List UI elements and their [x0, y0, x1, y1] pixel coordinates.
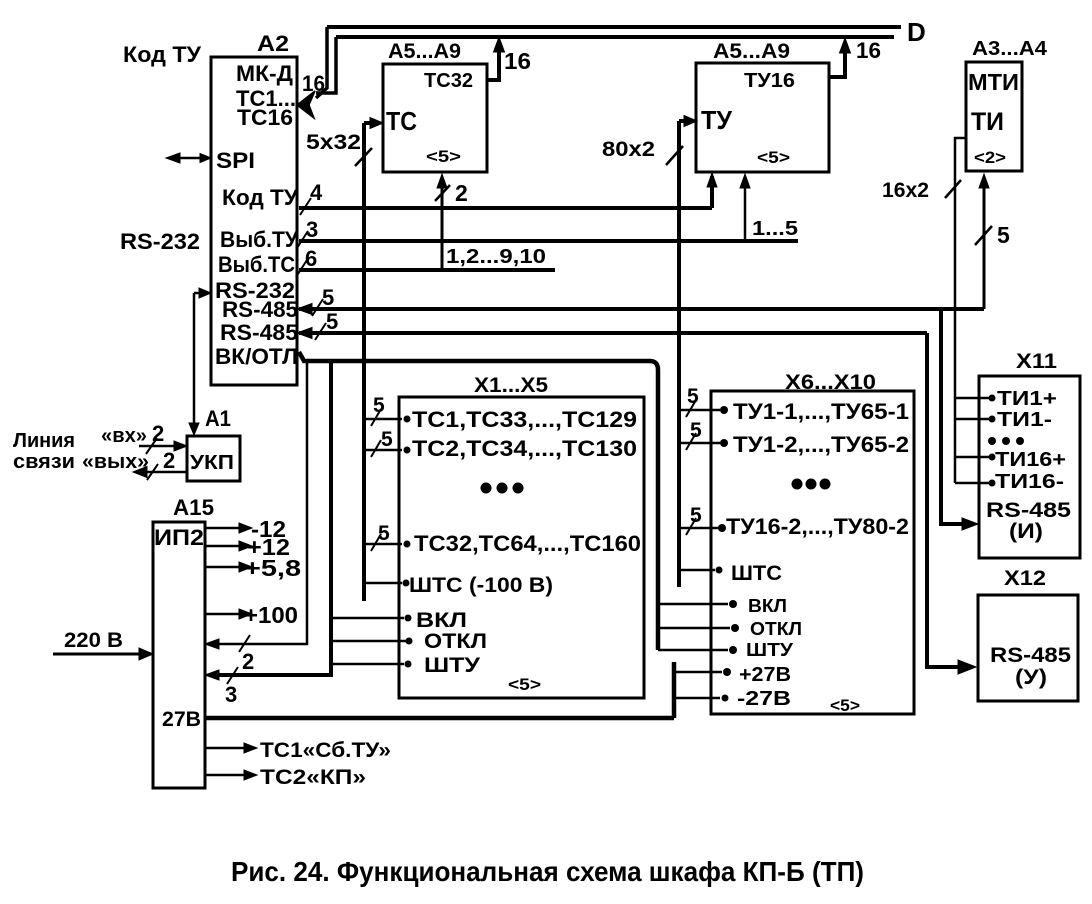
- node 1...5 label: [752, 218, 798, 240]
- wire RS-485 bus1 rise to MTI: [983, 178, 986, 309]
- svg-text:ОТКЛ: ОТКЛ: [750, 619, 802, 639]
- block TC32 A5..A9: [383, 64, 487, 172]
- svg-text:ТС2,ТС34,...,ТС130: ТС2,ТС34,...,ТС130: [412, 436, 637, 461]
- wire branch 1...5 up to TU16: [744, 178, 747, 241]
- wire D bus lower line: [336, 35, 894, 39]
- svg-text:+27В: +27В: [739, 664, 791, 686]
- node 1,2...9,10 label: [446, 246, 546, 268]
- node 80x2 label: [602, 138, 655, 161]
- wire Vyb.TC bus: [299, 268, 555, 272]
- node RS-232 left label: [120, 229, 200, 254]
- wire VK/OTL bus: [299, 352, 658, 650]
- op-amp block A2 MK-D: [211, 57, 297, 385]
- svg-text:<2>: <2>: [974, 148, 1006, 167]
- node label 5 MTI: [997, 222, 1010, 248]
- node 16 label at A2: [302, 71, 325, 96]
- node label 5 TU16-2: [690, 504, 702, 527]
- node slash on branch 2: [435, 185, 450, 201]
- svg-text:D: D: [907, 17, 926, 47]
- wire D bus drop outer: [316, 27, 327, 98]
- node A1 designator: [205, 406, 231, 431]
- svg-text:УКП: УКП: [190, 452, 234, 474]
- node slash on RS-485 bus1: [312, 299, 323, 316]
- svg-text:2: 2: [242, 649, 254, 674]
- node slash vh: [146, 438, 157, 454]
- wire TU1-2 branch: [679, 442, 720, 445]
- wire 220V input: [53, 653, 140, 656]
- wire 27V riser: [672, 662, 677, 718]
- wire SHTU row feed X1X5: [331, 663, 404, 666]
- node slash on line-3: [227, 667, 238, 684]
- node 5x32 label: [306, 131, 361, 154]
- node slash 5 TC2: [371, 440, 381, 457]
- wire branch 2 up to TC32: [441, 180, 444, 270]
- svg-text:ТС32,ТС64,...,ТС160: ТС32,ТС64,...,ТС160: [414, 531, 641, 556]
- svg-text:RS-485: RS-485: [220, 320, 298, 345]
- node ellipsis X1X5: [481, 483, 492, 494]
- node label 5: [322, 285, 334, 310]
- svg-text:МК-Д: МК-Д: [236, 61, 293, 86]
- svg-text:связи: связи: [13, 451, 75, 473]
- wire -27V branch: [674, 697, 720, 700]
- node 16 label TU16: [856, 38, 881, 63]
- block MTI A3..A4: [966, 62, 1022, 171]
- svg-text:5: 5: [373, 394, 385, 417]
- node A3...A4 label: [972, 38, 1048, 60]
- node ellipsis X6X10: [792, 479, 803, 490]
- wire TI1+ branch: [955, 397, 989, 400]
- node X11 label: [1016, 350, 1057, 373]
- node slash 5 TC1: [371, 409, 381, 426]
- node slash vyh: [147, 464, 158, 480]
- svg-text:МТИ: МТИ: [968, 69, 1019, 95]
- wire SHTS branch X6X10: [679, 569, 715, 572]
- wire TU16-2 branch: [679, 527, 720, 530]
- svg-text:RS-485: RS-485: [986, 499, 1071, 522]
- wire TI16- branch: [955, 482, 989, 485]
- node A5...A9 label right: [713, 40, 790, 63]
- wire +27V branch: [674, 671, 722, 674]
- svg-text:«вых»: «вых»: [82, 451, 149, 473]
- svg-text:ТС32: ТС32: [424, 70, 473, 92]
- svg-text:А15: А15: [173, 495, 214, 520]
- wire 27V bus: [205, 716, 674, 721]
- svg-text:Код ТУ: Код ТУ: [123, 42, 201, 67]
- node ellipsis X11: [988, 437, 996, 445]
- node label 5 TC32: [378, 522, 390, 545]
- node svyazi label: [13, 451, 75, 473]
- block UKP A1: [187, 436, 240, 481]
- wire TC2 KP output: [205, 774, 245, 777]
- wire TC1 branch: [364, 418, 402, 421]
- node label 3 IP2: [225, 682, 237, 707]
- wire Vyb.TU bus: [299, 239, 798, 243]
- wire RS-485 bus1 drop to X11: [941, 309, 963, 524]
- svg-text:+100: +100: [244, 602, 298, 628]
- svg-text:ТУ16-2,...,ТУ80-2: ТУ16-2,...,ТУ80-2: [726, 514, 909, 539]
- svg-text:Выб.ТУ: Выб.ТУ: [220, 227, 298, 252]
- wire 16 arrow TU16 to D bus: [829, 47, 845, 77]
- svg-text:(У): (У): [1015, 666, 1047, 689]
- svg-text:А5...А9: А5...А9: [388, 40, 461, 63]
- wire SHTU row feed X6X10: [658, 649, 728, 652]
- svg-text:5: 5: [378, 522, 390, 545]
- wire 80x2 vertical: [677, 121, 681, 587]
- svg-text:4: 4: [310, 180, 323, 205]
- node slash 4 on Kod TU: [300, 198, 311, 215]
- svg-text:5: 5: [690, 419, 702, 442]
- wire +5,8 output: [205, 566, 240, 569]
- svg-text:ТИ1-: ТИ1-: [997, 409, 1052, 431]
- wire OTKL row feed X6X10: [658, 627, 730, 630]
- svg-text:ТИ16-: ТИ16-: [995, 471, 1064, 493]
- svg-text:16х2: 16х2: [882, 179, 929, 202]
- svg-text:ТС1«Сб.ТУ»: ТС1«Сб.ТУ»: [260, 739, 391, 762]
- node pin dots X1X5: [404, 416, 411, 423]
- wire D bus upper line: [327, 25, 901, 29]
- wire +12 output: [205, 545, 240, 548]
- node vyh label: [82, 451, 149, 473]
- svg-text:ТС: ТС: [386, 106, 417, 136]
- wire 5x32 vertical: [362, 123, 366, 601]
- wire RS-485 bus 2: [299, 331, 927, 335]
- wire RS-232 elbow to UKP: [194, 293, 199, 428]
- node X12 label: [1004, 567, 1046, 590]
- svg-text:ВКЛ: ВКЛ: [416, 609, 467, 632]
- node figure caption: [231, 856, 864, 887]
- node A15 designator: [173, 495, 214, 520]
- node X6...X10 label: [785, 371, 876, 394]
- svg-text:80х2: 80х2: [602, 138, 655, 161]
- wire 16x2 from MTI to X11: [955, 138, 966, 483]
- svg-text:А2: А2: [257, 31, 289, 56]
- node label 5 TC2: [381, 428, 393, 451]
- svg-text:ТС2«КП»: ТС2«КП»: [260, 766, 366, 789]
- svg-text:1,2...9,10: 1,2...9,10: [446, 246, 546, 268]
- svg-text:Линия: Линия: [13, 430, 75, 452]
- node label 5 TC1: [373, 394, 385, 417]
- svg-text:6: 6: [305, 246, 317, 271]
- svg-text:2: 2: [455, 180, 468, 206]
- svg-text:«вх»: «вх»: [101, 425, 147, 447]
- svg-text:1...5: 1...5: [752, 218, 798, 240]
- svg-text:RS-485: RS-485: [990, 644, 1071, 667]
- svg-text:Х6...Х10: Х6...Х10: [785, 371, 876, 394]
- node A2 designator: [257, 31, 289, 56]
- wire TC1 SbTU output: [205, 747, 245, 750]
- svg-text:-27В: -27В: [737, 688, 791, 710]
- wire VKL row feed X1X5: [331, 617, 404, 620]
- svg-text:ОТКЛ: ОТКЛ: [424, 630, 487, 653]
- svg-text:А5...А9: А5...А9: [713, 40, 790, 63]
- node slash 5 TU1-1: [686, 400, 696, 417]
- wire line-3 thick from VK/OTL to IP2: [211, 361, 331, 675]
- svg-text:<5>: <5>: [830, 696, 860, 715]
- wire vyh arrow out of UKP: [144, 471, 186, 474]
- svg-text:ТС1,ТС33,...,ТС129: ТС1,ТС33,...,ТС129: [412, 407, 637, 432]
- node pin dots X6X10: [720, 406, 728, 414]
- node slash 16x2: [945, 180, 961, 198]
- svg-text:5х32: 5х32: [306, 131, 361, 154]
- svg-text:Выб.ТС: Выб.ТС: [218, 252, 295, 277]
- svg-text:3: 3: [225, 682, 237, 707]
- svg-text:5: 5: [687, 385, 699, 408]
- svg-text:5: 5: [322, 285, 334, 310]
- node slash 3 on Vyb.TU: [297, 231, 308, 248]
- wire TU1-1 branch: [679, 409, 720, 412]
- block X12: [978, 595, 1078, 701]
- svg-text:А1: А1: [205, 406, 231, 431]
- svg-text:RS-485: RS-485: [222, 297, 298, 322]
- svg-text:ТИ: ТИ: [971, 108, 1004, 136]
- node slash 5 TU1-2: [686, 433, 696, 450]
- svg-text:ИП2: ИП2: [154, 525, 204, 550]
- node label 2 vh: [152, 421, 164, 446]
- svg-text:Код ТУ: Код ТУ: [222, 185, 298, 210]
- node label 4: [310, 180, 323, 205]
- svg-text:ТИ16+: ТИ16+: [995, 449, 1066, 471]
- wire RS-485 bus 1: [299, 307, 984, 311]
- node X1...X5 label: [474, 374, 548, 397]
- node slash on line-2: [239, 635, 250, 652]
- svg-text:Х12: Х12: [1004, 567, 1046, 590]
- node label 5 TU1-2: [690, 419, 702, 442]
- svg-text:ТУ1-1,...,ТУ65-1: ТУ1-1,...,ТУ65-1: [733, 399, 909, 424]
- node Kod TU top-left label: [123, 42, 201, 67]
- svg-text:(И): (И): [1009, 520, 1043, 543]
- svg-text:ТУ1-2,...,ТУ65-2: ТУ1-2,...,ТУ65-2: [733, 432, 909, 457]
- svg-text:ТУ: ТУ: [701, 105, 733, 135]
- svg-text:ШТС (-100 В): ШТС (-100 В): [409, 574, 553, 597]
- svg-text:5: 5: [690, 504, 702, 527]
- node D label: [907, 17, 926, 47]
- node 16 label TC32: [504, 48, 531, 74]
- wire TI1- branch: [955, 418, 989, 421]
- node slash 6 on Vyb.TC: [296, 260, 307, 277]
- node slash 5 TU16-2: [686, 518, 696, 535]
- wire Kod TU rise to TU16: [710, 176, 714, 208]
- svg-text:<5>: <5>: [757, 148, 790, 167]
- svg-text:16: 16: [856, 38, 881, 63]
- wire D bus drop inner: [316, 37, 336, 93]
- svg-text:ШТУ: ШТУ: [424, 654, 481, 677]
- wire TC32 branch: [364, 543, 402, 546]
- svg-text:5: 5: [326, 309, 338, 334]
- svg-text:2: 2: [152, 421, 164, 446]
- node slash 5 near MTI: [975, 226, 992, 245]
- svg-text:SPI: SPI: [216, 148, 255, 173]
- svg-text:ТИ1+: ТИ1+: [997, 388, 1057, 410]
- node vh label: [101, 425, 147, 447]
- node A5...A9 label left: [388, 40, 461, 63]
- wire TI16+ branch: [955, 456, 989, 459]
- svg-text:ТС16: ТС16: [237, 105, 293, 130]
- wire SHTS branch X1X5: [364, 582, 402, 585]
- svg-text:Х1...Х5: Х1...Х5: [474, 374, 548, 397]
- block TU16 A5..A9: [696, 63, 829, 172]
- node slash on 5x32: [355, 148, 372, 166]
- svg-text:А3...А4: А3...А4: [972, 38, 1048, 60]
- wire SPI double arrow: [170, 157, 209, 160]
- svg-text:ВКЛ: ВКЛ: [748, 596, 787, 616]
- svg-text:+5,8: +5,8: [244, 555, 301, 581]
- node slash 5 TC32: [371, 534, 381, 551]
- node Linia label: [13, 430, 75, 452]
- svg-text:2: 2: [163, 448, 175, 473]
- node label 6: [305, 246, 317, 271]
- wire 16 arrow TC32 to D bus: [487, 46, 499, 80]
- block IP2 A15: [153, 522, 205, 788]
- node label 5 TU1-1: [687, 385, 699, 408]
- svg-text:ШТУ: ШТУ: [746, 640, 794, 660]
- node label 2 IP2: [242, 649, 254, 674]
- svg-text:5: 5: [381, 428, 393, 451]
- wire line-2 from VK/OTL to IP2: [211, 361, 307, 644]
- node 220V label: [64, 629, 123, 652]
- svg-text:16: 16: [504, 48, 531, 74]
- svg-text:<5>: <5>: [426, 147, 461, 166]
- node 16x2 label: [882, 179, 929, 202]
- svg-text:Х11: Х11: [1016, 350, 1057, 373]
- wire OTKL row feed X1X5: [331, 640, 406, 643]
- node label 5b: [326, 309, 338, 334]
- svg-text:<5>: <5>: [508, 675, 541, 694]
- wire VKL row feed X6X10: [658, 603, 728, 606]
- svg-text:5: 5: [997, 222, 1010, 248]
- block X6...X10: [711, 391, 914, 714]
- node label 3: [306, 217, 318, 242]
- block X1...X5: [399, 397, 644, 698]
- svg-text:ТУ16: ТУ16: [744, 70, 795, 92]
- svg-text:ВК/ОТЛ: ВК/ОТЛ: [215, 344, 298, 369]
- wire -12 output: [205, 527, 240, 530]
- svg-text:27В: 27В: [162, 708, 201, 731]
- node arrow into A2 TC1..TC16: [297, 91, 315, 118]
- wire Kod TU bus: [299, 206, 712, 210]
- svg-text:ШТС: ШТС: [731, 562, 782, 585]
- wire TC2 branch: [364, 449, 402, 452]
- svg-text:3: 3: [306, 217, 318, 242]
- node pin dots X11: [989, 395, 996, 402]
- svg-text:16: 16: [302, 71, 325, 96]
- svg-text:Рис. 24. Функциональная схема: Рис. 24. Функциональная схема шкафа КП-Б…: [231, 856, 864, 887]
- svg-text:220 В: 220 В: [64, 629, 123, 652]
- block X11: [979, 376, 1080, 558]
- wire +100 output: [205, 613, 240, 616]
- node slash on RS-485 bus2: [315, 323, 326, 340]
- svg-text:RS-232: RS-232: [120, 229, 200, 254]
- node label 2 vyh: [163, 448, 175, 473]
- wire RS-485 bus2 drop to X12: [927, 333, 958, 667]
- node slash on 80x2: [666, 146, 683, 165]
- wire vh arrow into UKP: [139, 445, 178, 448]
- node label 2: [455, 180, 468, 206]
